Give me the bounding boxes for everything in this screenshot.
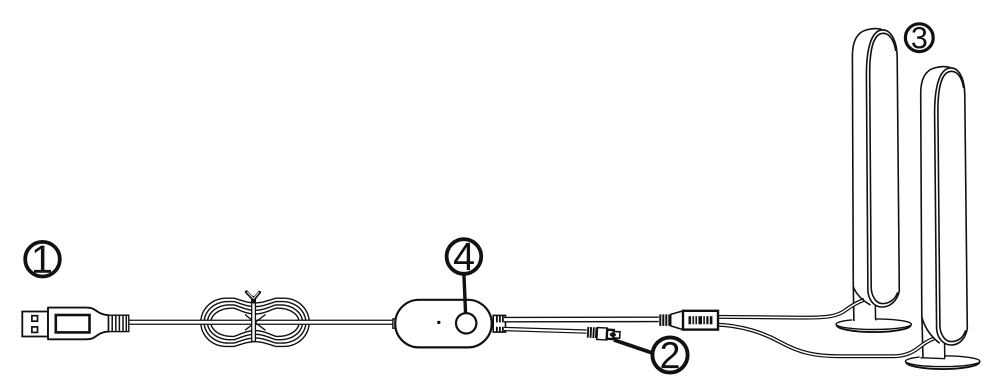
label 1 [25, 242, 60, 277]
label 4 [447, 239, 482, 274]
callout line to small connector [614, 340, 652, 353]
connector plug to light bars [659, 311, 718, 330]
label 3 [905, 24, 933, 52]
cable tie band [251, 297, 255, 342]
wire upper cable pod to plug [504, 316, 660, 322]
left light bar body [852, 29, 899, 321]
wire coiled USB cable bundle [201, 298, 309, 346]
controller pod body [395, 300, 492, 348]
left light bar stem [852, 294, 876, 322]
callout line to button [464, 274, 466, 314]
right light bar bottom cap [922, 318, 967, 346]
right light bar base [906, 356, 980, 370]
pod strain relief ribs [493, 315, 505, 332]
right light bar body [921, 67, 968, 358]
small connector plug (2) [586, 327, 620, 341]
label 2 [652, 337, 687, 372]
pod status LED dot [437, 321, 440, 324]
wire pod stub connector [393, 319, 397, 328]
USB plug strain relief ribs [109, 315, 129, 331]
wire from plug to left light bar [716, 300, 864, 318]
cable tie tails (Y) [247, 292, 260, 300]
left light bar base [836, 319, 911, 333]
left light bar bottom cap [854, 288, 900, 308]
right light bar stem [920, 332, 946, 359]
wire main cable from USB plug to controller [129, 320, 396, 325]
USB-A plug body [22, 308, 108, 340]
wire lower cable pod to small connector [504, 329, 587, 332]
wire from plug to right light bar [716, 325, 934, 357]
wire crossing strands at tie [245, 315, 266, 331]
pod button [456, 313, 476, 333]
